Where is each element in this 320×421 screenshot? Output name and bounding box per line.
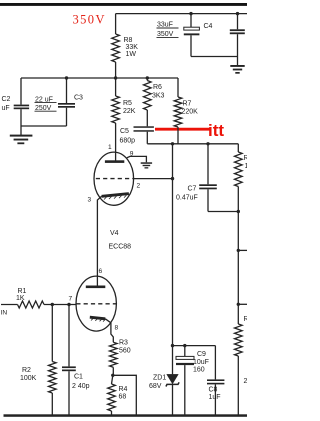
svg-text:R8: R8 xyxy=(124,37,133,44)
wire R1 to grid pin7 xyxy=(44,304,76,306)
wire cathode bias rail y345.6 xyxy=(173,345,216,347)
tube V4 upper triode envelope xyxy=(94,152,134,205)
wire HT top rail xyxy=(116,13,247,15)
svg-text:IN: IN xyxy=(1,310,8,317)
svg-text:68: 68 xyxy=(119,394,127,401)
svg-text:6: 6 xyxy=(99,268,103,275)
svg-text:1K: 1K xyxy=(16,295,25,302)
resistor R6 xyxy=(146,76,149,79)
anode lower xyxy=(86,286,106,289)
capacitor C7 xyxy=(207,144,209,185)
ground under C2/C3 xyxy=(20,126,22,135)
svg-text:1W: 1W xyxy=(126,51,137,58)
wire grid node rail y143.8 xyxy=(147,143,238,145)
svg-text:itt: itt xyxy=(208,121,224,140)
wire pin8 cathode to R3 xyxy=(105,319,113,342)
wire pin2 node vertical to ZD1 xyxy=(172,144,174,375)
svg-text:R3: R3 xyxy=(119,340,128,347)
wire main vertical top to R8 xyxy=(115,14,117,34)
svg-text:2 40p: 2 40p xyxy=(72,383,90,390)
svg-text:8: 8 xyxy=(115,325,119,332)
grid upper dashed xyxy=(96,178,134,180)
svg-text:68V: 68V xyxy=(149,383,162,390)
svg-text:560: 560 xyxy=(119,348,131,355)
wire R3/R4 junction bypass xyxy=(113,375,137,416)
wire stub out right upper xyxy=(237,249,240,252)
svg-text:0.47uF: 0.47uF xyxy=(176,195,198,202)
svg-text:R6: R6 xyxy=(153,84,162,91)
svg-text:3: 3 xyxy=(88,197,92,204)
anode upper xyxy=(105,160,124,163)
svg-text:350V: 350V xyxy=(73,13,106,27)
svg-text:22K: 22K xyxy=(123,108,136,115)
svg-text:uF: uF xyxy=(2,105,10,112)
svg-text:R: R xyxy=(244,155,248,162)
top border bar xyxy=(0,3,247,6)
svg-text:7: 7 xyxy=(69,296,73,303)
svg-text:680p: 680p xyxy=(120,138,136,145)
capacitor C1 xyxy=(68,305,70,367)
svg-text:9: 9 xyxy=(130,151,134,158)
cathode lower xyxy=(90,317,106,319)
annotation red pointer line xyxy=(155,128,211,131)
zener ZD1 xyxy=(167,374,178,383)
capacitor C8 xyxy=(214,346,216,380)
svg-text:C7: C7 xyxy=(188,186,197,193)
svg-text:ZD1: ZD1 xyxy=(153,375,166,382)
svg-text:C4: C4 xyxy=(204,23,213,30)
svg-text:100K: 100K xyxy=(20,375,37,382)
wire cascode link pin3 to pin6 xyxy=(97,196,101,276)
wire R8 to node B+ xyxy=(115,62,117,96)
capacitor C9 xyxy=(184,346,186,357)
pin 9 lead and ground xyxy=(127,156,147,162)
resistor R9 right edge xyxy=(237,144,239,152)
wire pin2 grid lead xyxy=(133,178,172,180)
svg-text:2: 2 xyxy=(244,378,248,385)
wire stub out right lower xyxy=(237,303,240,306)
wire R5 to tube pin1 xyxy=(115,123,117,161)
svg-text:C9: C9 xyxy=(197,351,206,358)
wire C7/R9 bottom xyxy=(208,211,238,213)
svg-text:C3: C3 xyxy=(74,95,83,102)
resistor R7 xyxy=(177,78,179,97)
svg-text:R5: R5 xyxy=(123,100,132,107)
resistor R4 xyxy=(112,375,113,384)
svg-text:R7: R7 xyxy=(183,101,192,108)
resistor R2 xyxy=(51,305,53,362)
svg-text:33uF: 33uF xyxy=(157,22,173,29)
svg-text:R2: R2 xyxy=(22,367,31,374)
wire right vertical down xyxy=(237,212,239,325)
svg-text:2: 2 xyxy=(137,183,141,190)
ground under right cap xyxy=(230,65,244,67)
wire box bottom xyxy=(21,125,67,127)
tube V4 lower triode envelope xyxy=(76,276,116,331)
grid lower dashed xyxy=(76,303,116,305)
svg-text:C1: C1 xyxy=(74,374,83,381)
svg-text:C5: C5 xyxy=(120,128,129,135)
wire ground bottom rail xyxy=(4,414,248,417)
svg-text:220K: 220K xyxy=(182,109,199,116)
wire decoupling rail y78 xyxy=(21,77,178,79)
svg-text:R4: R4 xyxy=(119,386,128,393)
resistor lower right edge xyxy=(235,324,243,356)
svg-text:10uF: 10uF xyxy=(193,359,209,366)
svg-text:R1: R1 xyxy=(18,288,27,295)
svg-text:1: 1 xyxy=(108,144,112,151)
cathode upper xyxy=(102,194,129,197)
svg-text:V4: V4 xyxy=(110,230,119,237)
resistor R5 xyxy=(115,95,117,97)
capacitor C3 xyxy=(65,76,68,79)
capacitor C4 xyxy=(189,12,192,15)
svg-text:3K3: 3K3 xyxy=(152,93,165,100)
svg-text:1uF: 1uF xyxy=(209,394,221,401)
svg-text:R: R xyxy=(244,316,248,323)
svg-text:C8: C8 xyxy=(209,387,218,394)
svg-text:C2: C2 xyxy=(2,96,11,103)
wire input xyxy=(1,304,18,306)
svg-text:1: 1 xyxy=(245,163,248,170)
node junction B+ rail xyxy=(114,76,117,79)
wire R6 to C5 xyxy=(146,110,148,126)
capacitor C5 xyxy=(134,126,154,128)
svg-text:ECC88: ECC88 xyxy=(109,244,132,251)
resistor R3 xyxy=(110,342,118,367)
resistor R8 xyxy=(112,34,120,62)
capacitor C2 xyxy=(20,78,22,105)
svg-text:33K: 33K xyxy=(126,44,139,51)
resistor R1 xyxy=(18,301,45,308)
capacitor right edge xyxy=(236,12,239,15)
wire C4 bottom to right cap xyxy=(191,56,238,58)
svg-text:160: 160 xyxy=(193,367,205,374)
